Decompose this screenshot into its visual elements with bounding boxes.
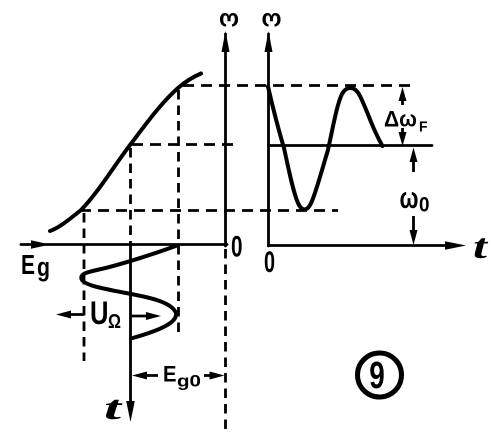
svg-text:ω: ω (400, 182, 419, 215)
svg-text:Δω: Δω (384, 107, 417, 132)
svg-text:t: t (104, 390, 124, 427)
svg-text:E: E (21, 249, 35, 280)
svg-text:9: 9 (369, 355, 385, 397)
svg-text:g: g (37, 252, 50, 282)
svg-text:t: t (473, 227, 489, 266)
svg-text:ω: ω (262, 7, 282, 35)
svg-text:F: F (419, 119, 428, 136)
svg-text:U: U (90, 295, 109, 331)
svg-text:0: 0 (419, 194, 430, 217)
svg-text:ω: ω (219, 7, 239, 35)
svg-text:0: 0 (264, 246, 275, 279)
svg-text:0: 0 (231, 231, 243, 264)
svg-text:g0: g0 (177, 372, 201, 391)
svg-text:E: E (163, 362, 177, 387)
svg-text:Ω: Ω (108, 311, 121, 333)
